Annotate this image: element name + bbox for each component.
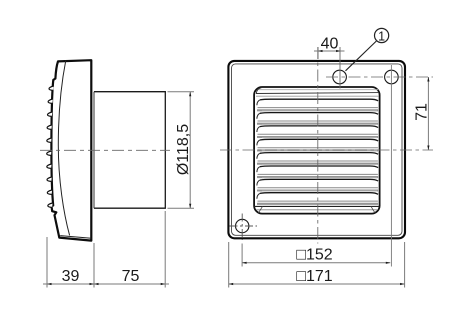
- dimension square 152: [241, 244, 243, 267]
- cover bottom inner line: [60, 236, 91, 239]
- grille bottom lip: [254, 206, 379, 213]
- bottom-left hole crosshair: [230, 225, 258, 227]
- centerline vertical main: [317, 47, 319, 244]
- dimension 71: [427, 77, 429, 150]
- vertical line through right hole = 152 extension: [390, 65, 392, 267]
- centerline horizontal main: [220, 149, 433, 151]
- side view centerline: [40, 149, 170, 151]
- svg-text:1: 1: [378, 29, 385, 43]
- svg-text:Ø118,5: Ø118,5: [175, 124, 192, 175]
- cover inner contour: [58, 60, 69, 235]
- louvre tabs on cover: [47, 86, 54, 207]
- cover back edge second line: [93, 92, 95, 209]
- dimension arrows diameter: [189, 92, 191, 209]
- fan cover outline (side): [51, 60, 91, 240]
- centerline vertical top-center hole / 40 extension: [339, 47, 341, 89]
- svg-text:40: 40: [321, 36, 339, 53]
- mounting hole bottom-left: [236, 219, 249, 232]
- outer frame plate: [228, 61, 405, 238]
- callout leader line: [346, 41, 377, 71]
- mounting hole top-right: [385, 70, 399, 84]
- dimension square 171: [228, 242, 230, 288]
- grille top lip: [256, 88, 379, 97]
- callout circle 1: [375, 28, 389, 42]
- grille louvre slats: [257, 99, 378, 204]
- svg-text:71: 71: [414, 103, 431, 121]
- dimension extension lines for diameter: [168, 92, 195, 209]
- dimension 40: [317, 47, 319, 59]
- svg-text:□152: □152: [296, 247, 332, 264]
- inner frame line: [232, 64, 403, 235]
- mounting hole top-center: [333, 70, 347, 84]
- svg-text:75: 75: [122, 268, 140, 285]
- svg-text:39: 39: [62, 268, 80, 285]
- bottom dimension 39 / 75: [43, 211, 169, 288]
- svg-text:□171: □171: [296, 268, 332, 285]
- grille outer: [254, 87, 380, 214]
- duct: [94, 92, 165, 209]
- centerline through top holes: [326, 76, 433, 78]
